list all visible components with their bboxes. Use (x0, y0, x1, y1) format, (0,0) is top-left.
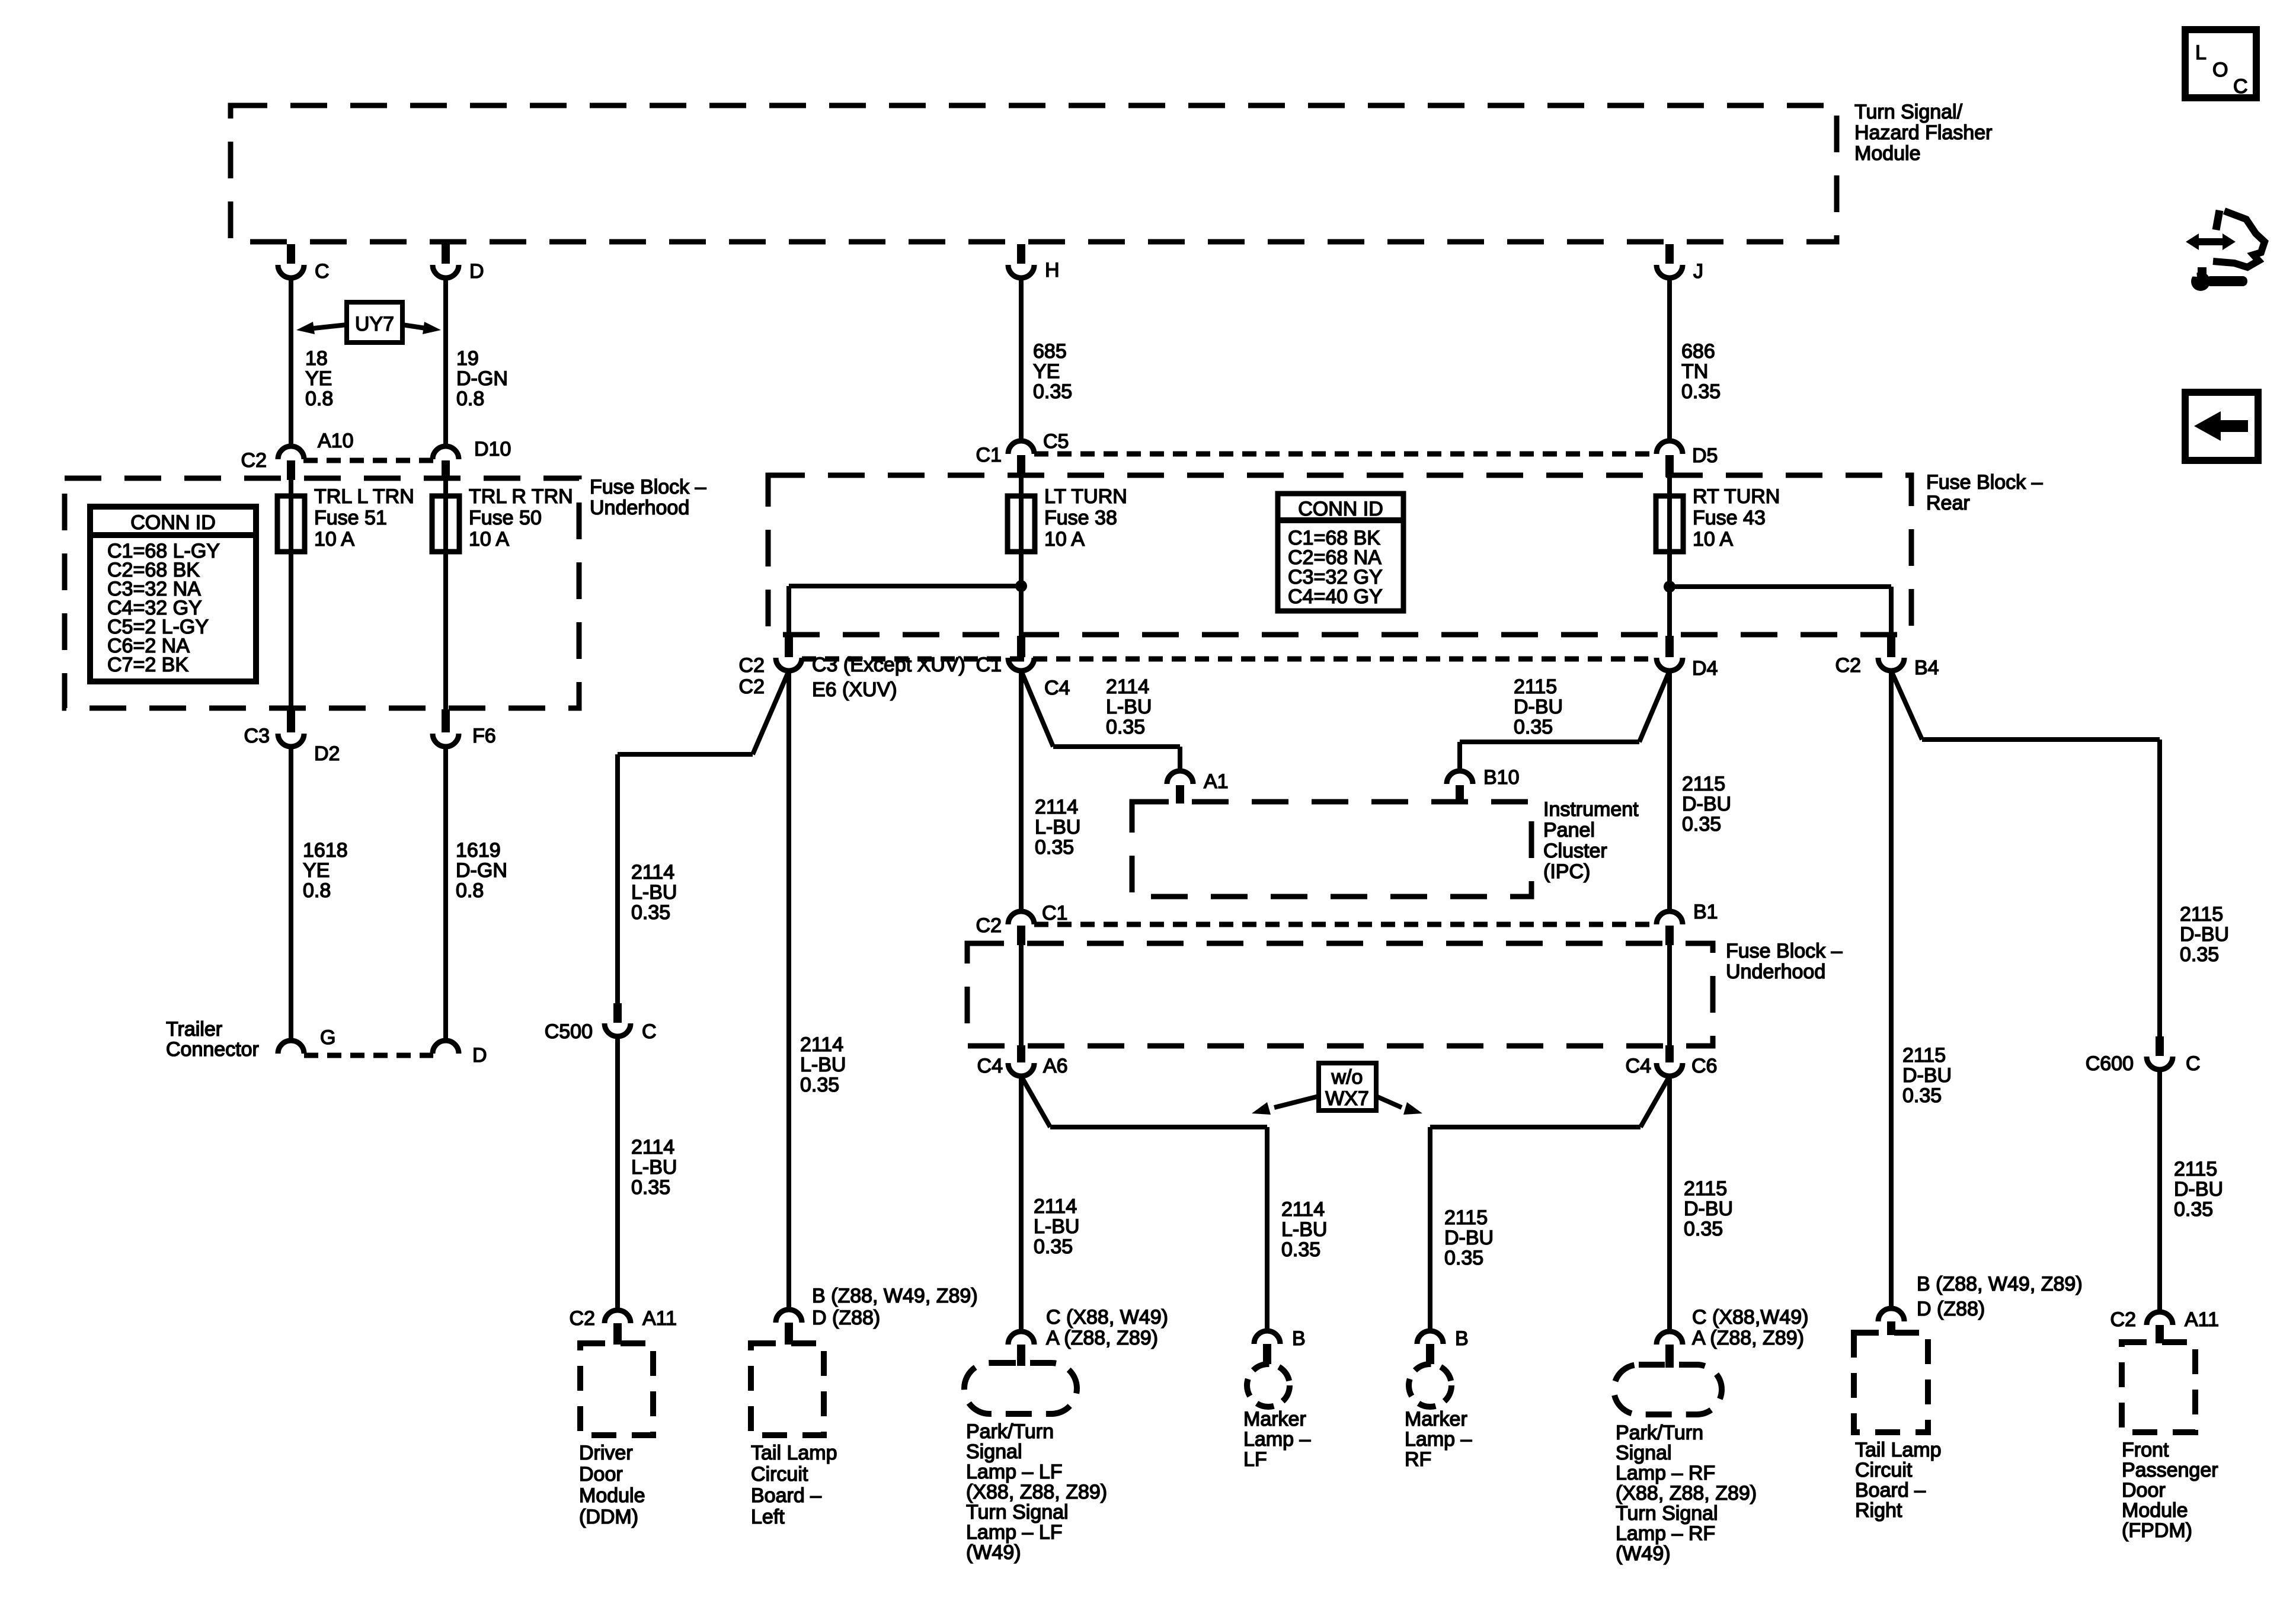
wire branch LT TURN junction to left (789, 584, 1021, 588)
svg-text:Panel: Panel (1543, 819, 1595, 841)
connector C2/B4 cup (1878, 658, 1904, 671)
label Tail Lamp Circuit Board - Left (751, 1442, 837, 1528)
svg-text:Right: Right (1855, 1499, 1902, 1522)
connector D10 cup (433, 446, 459, 459)
svg-text:CONN ID: CONN ID (1298, 498, 1383, 520)
svg-text:10 A: 10 A (469, 528, 509, 550)
connector C1/C4 stub (1017, 636, 1025, 657)
connector stub (park/turn RF) (1665, 1345, 1674, 1368)
svg-text:D2: D2 (314, 742, 340, 765)
svg-text:2114: 2114 (631, 861, 674, 884)
svg-text:C600: C600 (2086, 1052, 2134, 1075)
svg-text:RF: RF (1405, 1448, 1431, 1471)
svg-text:D (Z88): D (Z88) (1917, 1298, 1985, 1320)
svg-text:Underhood: Underhood (590, 497, 689, 519)
svg-text:C2: C2 (570, 1307, 595, 1330)
UY7 arrow right (402, 322, 441, 334)
label B/D pins (tail lamp right) (1917, 1273, 2083, 1320)
svg-text:C7=2 BK: C7=2 BK (107, 654, 188, 676)
svg-text:0.8: 0.8 (456, 388, 484, 410)
svg-text:A11: A11 (642, 1307, 677, 1330)
connector C600 cup (2147, 1057, 2173, 1070)
connector C4/A6 cup (1008, 1063, 1034, 1076)
svg-text:C2: C2 (739, 654, 765, 677)
svg-text:2114: 2114 (631, 1136, 674, 1158)
svg-text:TRL L TRN: TRL L TRN (314, 485, 414, 508)
label wire 2115 D-BU 0.35 (B10 branch) (1514, 676, 1563, 738)
label Park/Turn Signal Lamp - RF (1616, 1422, 1757, 1565)
svg-text:L-BU: L-BU (800, 1054, 846, 1076)
icon LOC box (2185, 30, 2256, 98)
svg-text:(IPC): (IPC) (1543, 860, 1590, 883)
svg-text:A6: A6 (1043, 1055, 1068, 1077)
svg-text:0.35: 0.35 (1033, 380, 1072, 403)
component outline Marker Lamp - RF (1409, 1364, 1451, 1407)
svg-text:D-BU: D-BU (1444, 1227, 1494, 1249)
svg-text:Module: Module (579, 1484, 645, 1507)
wire 18 YE (C to A10) (289, 278, 293, 446)
connector stub (marker LF) (1263, 1344, 1271, 1364)
svg-text:A11: A11 (2185, 1308, 2219, 1331)
junction dot (RT TURN to B4 branch) (1664, 581, 1675, 593)
label wire 2114 L-BU 0.35 (A6 down) (1034, 1195, 1079, 1258)
svg-text:Lamp –: Lamp – (1405, 1428, 1472, 1451)
svg-text:0.35: 0.35 (1281, 1238, 1320, 1261)
svg-text:(FPDM): (FPDM) (2122, 1519, 2192, 1542)
connector A11 stub (FPDM) (2156, 1325, 2164, 1343)
label wire 19 D-GN 0.8 (456, 347, 508, 410)
svg-text:Circuit: Circuit (751, 1463, 808, 1486)
svg-text:0.35: 0.35 (631, 901, 670, 924)
wire 2115 D-BU (marker RF down) (1428, 1127, 1432, 1331)
svg-text:TN: TN (1681, 360, 1708, 383)
svg-text:D-BU: D-BU (1682, 793, 1731, 815)
label wire 2114 L-BU 0.35 (A1 branch) (1106, 676, 1152, 738)
connector D5 cup (1657, 441, 1683, 454)
label B/D pins (tail lamp left) (812, 1285, 978, 1329)
connector C2/B4 stub (1887, 636, 1895, 657)
fuse LT TURN Fuse 38 10A (1008, 485, 1127, 552)
wire 2114 L-BU (A6 down) (1019, 1076, 1024, 1331)
connector stub (tail lamp left) (785, 1323, 793, 1345)
svg-text:C4: C4 (1626, 1055, 1651, 1077)
svg-text:Board –: Board – (1855, 1479, 1926, 1502)
connector line C5-D5 (1034, 452, 1657, 457)
svg-text:w/o: w/o (1331, 1066, 1363, 1089)
wire fuse50 feed (443, 480, 448, 709)
connector C3 cup (278, 734, 304, 747)
svg-text:Tail Lamp: Tail Lamp (1855, 1439, 1942, 1461)
connector stub (tail lamp right) (1887, 1321, 1895, 1335)
svg-text:C: C (642, 1020, 657, 1043)
svg-text:2115: 2115 (1684, 1177, 1727, 1200)
wire 2114 L-BU down to C500 (615, 754, 620, 1003)
wire 685 YE (H to C5) (1019, 278, 1024, 441)
svg-text:0.35: 0.35 (1106, 716, 1145, 738)
svg-text:C (X88,W49): C (X88,W49) (1692, 1306, 1809, 1329)
wire fuse51 feed (289, 480, 293, 709)
wire 1618 YE (C3 to G) (289, 747, 293, 1041)
svg-text:Park/Turn: Park/Turn (966, 1420, 1054, 1443)
svg-text:G: G (320, 1026, 335, 1049)
svg-text:C5: C5 (1043, 430, 1069, 453)
connector pin J (1657, 265, 1683, 278)
wire 2115 D-BU (C6 diag to marker) (1641, 1076, 1670, 1127)
svg-text:2114: 2114 (1035, 796, 1078, 818)
wire 2115 D-BU (D4 diagonal) (1639, 671, 1670, 742)
wire 2115 D-BU (D4 to B1) (1667, 671, 1672, 911)
svg-text:Lamp – LF: Lamp – LF (966, 1521, 1063, 1544)
module box: Turn Signal/Hazard Flasher Module (231, 105, 1837, 242)
connector C2/A10 cup (278, 446, 304, 459)
wire 2115 D-BU (down to B10) (1457, 742, 1462, 771)
pin stub J (module) (1665, 244, 1674, 264)
svg-text:D5: D5 (1692, 444, 1718, 467)
svg-text:C4=40 GY: C4=40 GY (1288, 585, 1383, 608)
svg-text:2114: 2114 (800, 1033, 843, 1056)
wire 2115 diag to C600 branch (1891, 671, 1922, 740)
svg-text:19: 19 (456, 347, 479, 370)
svg-text:Front: Front (2122, 1439, 2169, 1461)
svg-text:Lamp – LF: Lamp – LF (966, 1461, 1063, 1483)
svg-text:Circuit: Circuit (1855, 1459, 1913, 1481)
svg-text:C4: C4 (1044, 677, 1070, 699)
svg-text:Hazard Flasher: Hazard Flasher (1854, 121, 1992, 144)
connector C1/C5 cup (1008, 441, 1034, 454)
svg-text:0.35: 0.35 (1682, 813, 1721, 836)
svg-text:C: C (2186, 1052, 2201, 1075)
wire 2114 L-BU (C500 to DDM) (615, 1036, 620, 1310)
svg-text:UY7: UY7 (355, 313, 394, 335)
wire fuse43 feed (1667, 477, 1672, 636)
w/o WX7 arrow right (1376, 1096, 1422, 1115)
svg-text:A1: A1 (1204, 770, 1229, 793)
svg-text:D-BU: D-BU (2174, 1178, 2223, 1201)
connector C3 stub (287, 709, 295, 732)
svg-text:Lamp – RF: Lamp – RF (1616, 1522, 1715, 1545)
svg-text:2115: 2115 (2174, 1158, 2217, 1180)
svg-text:O: O (2212, 59, 2228, 81)
svg-text:D-BU: D-BU (2180, 923, 2229, 946)
wire 2114 L-BU (C4 to C1 mid) (1019, 671, 1024, 911)
svg-text:Instrument: Instrument (1543, 798, 1639, 821)
component outline Park/Turn Signal Lamp - LF (964, 1363, 1077, 1414)
label wire 685 YE 0.35 (1033, 340, 1072, 403)
svg-text:C4: C4 (977, 1055, 1003, 1077)
module box: Fuse Block - Underhood (center) (967, 943, 1713, 1046)
svg-text:C2: C2 (2110, 1308, 2136, 1331)
connector B1 cup (1657, 911, 1683, 924)
svg-text:Signal: Signal (1616, 1442, 1672, 1464)
svg-text:D-BU: D-BU (1684, 1198, 1733, 1220)
svg-text:Driver: Driver (579, 1442, 633, 1464)
svg-text:D-BU: D-BU (1902, 1064, 1952, 1087)
label Front Passenger Door Module (FPDM) (2122, 1439, 2218, 1542)
wire 19 D-GN (D to D10) (443, 278, 448, 446)
label wire 2115 D-BU 0.35 (tail right) (1902, 1044, 1952, 1107)
svg-text:C500: C500 (545, 1020, 593, 1043)
svg-text:A10: A10 (318, 430, 354, 452)
svg-text:Module: Module (2122, 1499, 2188, 1522)
svg-text:2115: 2115 (1902, 1044, 1946, 1067)
svg-text:Fuse 50: Fuse 50 (469, 507, 542, 529)
label wire 1619 D-GN 0.8 (456, 839, 507, 902)
connector C4/A6 stub (1017, 1045, 1025, 1062)
svg-text:(DDM): (DDM) (579, 1506, 638, 1528)
svg-text:Fuse 38: Fuse 38 (1044, 507, 1117, 529)
wire 2115 D-BU down to C600 (2157, 740, 2162, 1036)
svg-text:0.35: 0.35 (1902, 1084, 1942, 1107)
wire branch to C2 connector (786, 586, 791, 636)
svg-text:L: L (2195, 41, 2207, 64)
label Fuse Block - Underhood (left) (590, 476, 706, 519)
svg-text:10 A: 10 A (1044, 528, 1085, 550)
label wire 1618 YE 0.8 (303, 839, 348, 902)
label Driver Door Module (DDM) (579, 1442, 645, 1528)
icon jump-to with wrench (2186, 210, 2265, 291)
wire 686 TN (J to D5) (1667, 278, 1672, 441)
connector D4 stub (1665, 636, 1674, 657)
connector C600 stub (2156, 1036, 2164, 1056)
wire 2115 D-BU (C6 down) (1667, 1076, 1672, 1331)
connector C500 stub (613, 1003, 622, 1023)
component box Front Passenger Door Module (2122, 1342, 2195, 1432)
connector line C1-B1 (1034, 922, 1657, 927)
fuse RT TURN Fuse 43 10A (1656, 485, 1780, 552)
label Marker Lamp - RF (1405, 1408, 1472, 1471)
label wire 2114 L-BU 0.35 (IPC drop) (1035, 796, 1080, 859)
UY7 option box (347, 302, 402, 343)
svg-text:L-BU: L-BU (1281, 1218, 1327, 1241)
svg-text:2115: 2115 (1444, 1206, 1488, 1229)
svg-text:Turn Signal: Turn Signal (966, 1501, 1069, 1523)
svg-text:(X88, Z88, Z89): (X88, Z88, Z89) (1616, 1482, 1757, 1505)
module box: Fuse Block - Underhood (left) (65, 478, 579, 708)
component outline Park/Turn Signal Lamp - RF (1614, 1365, 1722, 1414)
svg-text:D10: D10 (474, 438, 511, 460)
wire 2115 D-BU (marker RF horizontal) (1430, 1125, 1641, 1129)
svg-text:Fuse 43: Fuse 43 (1693, 507, 1766, 529)
connector C2/A10 stub (287, 460, 295, 480)
svg-text:C (X88, W49): C (X88, W49) (1046, 1306, 1168, 1329)
svg-text:Left: Left (751, 1506, 785, 1528)
wire 2114 L-BU (marker LF down) (1265, 1127, 1269, 1331)
svg-text:0.35: 0.35 (2174, 1198, 2213, 1221)
connector cup (park/turn LF) (1008, 1331, 1034, 1345)
label wire 2114 L-BU 0.35 (above C500) (631, 861, 677, 924)
UY7 arrow left (296, 322, 347, 334)
label wire 2115 D-BU 0.35 (above C600) (2180, 903, 2229, 966)
svg-text:C2: C2 (739, 676, 765, 698)
svg-text:Lamp – RF: Lamp – RF (1616, 1462, 1715, 1484)
label wire 2115 D-BU 0.35 (B1 drop) (1682, 773, 1731, 836)
svg-text:Module: Module (1854, 142, 1921, 165)
svg-text:1619: 1619 (456, 839, 501, 862)
svg-text:C1: C1 (976, 444, 1002, 466)
module box: Instrument Panel Cluster (IPC) (1132, 802, 1531, 897)
svg-text:A (Z88, Z89): A (Z88, Z89) (1692, 1327, 1804, 1349)
svg-text:L-BU: L-BU (631, 1156, 677, 1179)
svg-text:B (Z88, W49, Z89): B (Z88, W49, Z89) (812, 1285, 978, 1307)
label C/A pins (park/turn LF) (1046, 1306, 1168, 1349)
connector A11 stub (DDM) (613, 1323, 622, 1345)
wire fuse38 feed (1019, 477, 1024, 636)
svg-text:Fuse 51: Fuse 51 (314, 507, 387, 529)
label C3 (Except XUV) / E6 (XUV) (812, 654, 965, 701)
junction dot (LT TURN to C3 branch) (1015, 580, 1027, 592)
connector cup (marker RF) (1417, 1331, 1443, 1344)
wire 2115 horizontal to C600 (1922, 737, 2160, 742)
wire 2114 L-BU (down to A1) (1178, 747, 1182, 771)
component box Driver Door Module (580, 1343, 653, 1435)
wire 2114 L-BU (A6 diag to marker) (1021, 1076, 1050, 1127)
connector line A10-D10 (303, 458, 433, 463)
connector A1 stub (1176, 785, 1184, 804)
connector A11 cup (FPDM) (2147, 1312, 2173, 1325)
svg-text:2114: 2114 (1106, 676, 1149, 698)
label Tail Lamp Circuit Board - Right (1855, 1439, 1942, 1522)
wire 2115 D-BU (B4 down to tail lamp) (1889, 671, 1894, 1308)
svg-text:0.35: 0.35 (1444, 1247, 1483, 1269)
svg-text:C3: C3 (244, 725, 270, 747)
connector pin H (1008, 265, 1034, 278)
svg-text:Turn Signal/: Turn Signal/ (1854, 101, 1963, 123)
svg-text:2114: 2114 (1034, 1195, 1077, 1218)
svg-text:Door: Door (579, 1463, 623, 1486)
svg-text:Lamp –: Lamp – (1243, 1428, 1310, 1451)
label Fuse Block - Underhood (center) (1726, 940, 1843, 983)
svg-text:LF: LF (1243, 1448, 1267, 1471)
svg-text:B10: B10 (1483, 766, 1520, 789)
module box: Fuse Block - Rear (768, 475, 1911, 635)
svg-text:2115: 2115 (2180, 903, 2223, 926)
connector D5 stub (1665, 455, 1674, 477)
svg-text:C2: C2 (1835, 654, 1861, 677)
wire 2114 L-BU (marker LF horizontal) (1050, 1125, 1267, 1129)
connector line C2-D4 (802, 657, 1657, 662)
connector F6 stub (442, 709, 450, 732)
connector A1 cup (1167, 771, 1193, 784)
connector C2/C1 cup (mid) (1008, 911, 1034, 924)
svg-text:D-GN: D-GN (456, 859, 507, 882)
label Fuse Block - Rear (1926, 471, 2043, 514)
svg-text:2115: 2115 (1514, 676, 1557, 698)
connector C1/C4 cup (1008, 658, 1034, 671)
svg-text:C: C (315, 260, 330, 283)
svg-text:B: B (1455, 1327, 1469, 1350)
svg-text:10 A: 10 A (1693, 528, 1733, 550)
svg-text:10 A: 10 A (314, 528, 354, 550)
connector G cup (278, 1041, 304, 1054)
connector stub (park/turn LF) (1017, 1345, 1025, 1366)
svg-text:2115: 2115 (1682, 773, 1725, 795)
svg-text:Signal: Signal (966, 1441, 1022, 1463)
connector pin C (278, 265, 304, 278)
svg-text:Marker: Marker (1243, 1408, 1306, 1430)
label wire 2115 D-BU 0.35 (C6 down) (1684, 1177, 1733, 1240)
label wire 18 YE 0.8 (305, 347, 333, 410)
svg-text:Cluster: Cluster (1543, 840, 1607, 862)
svg-text:0.35: 0.35 (1034, 1235, 1073, 1258)
svg-text:685: 685 (1033, 340, 1067, 363)
wire through underhood block (right) (1667, 945, 1672, 1045)
svg-text:B1: B1 (1693, 901, 1718, 923)
connector D10 stub (442, 460, 450, 480)
label C2 / C2 (739, 654, 765, 698)
svg-text:(X88, Z88, Z89): (X88, Z88, Z89) (966, 1481, 1107, 1503)
wire 2114 diag to C500 branch (753, 671, 789, 754)
svg-text:J: J (1693, 260, 1703, 283)
svg-text:L-BU: L-BU (1034, 1215, 1079, 1238)
label wire 2115 D-BU 0.35 (marker RF) (1444, 1206, 1494, 1269)
svg-text:0.35: 0.35 (800, 1074, 839, 1096)
component outline Marker Lamp - LF (1247, 1364, 1290, 1407)
svg-text:Rear: Rear (1926, 492, 1970, 514)
svg-text:C2: C2 (976, 914, 1002, 937)
svg-text:B4: B4 (1914, 657, 1939, 679)
trailer connector line G-D (304, 1053, 433, 1058)
svg-text:18: 18 (305, 347, 328, 370)
connector C500 cup (605, 1023, 631, 1036)
svg-text:(W49): (W49) (1616, 1542, 1671, 1565)
svg-text:TRL R TRN: TRL R TRN (469, 485, 573, 508)
label wire 2114 L-BU 0.35 (marker LF) (1281, 1198, 1327, 1261)
connector B10 cup (1447, 771, 1473, 784)
svg-text:Park/Turn: Park/Turn (1616, 1422, 1703, 1444)
svg-text:Fuse Block –: Fuse Block – (1726, 940, 1843, 962)
svg-text:0.35: 0.35 (2180, 943, 2219, 966)
CONN ID table (center) (1278, 494, 1403, 611)
label Trailer Connector (166, 1018, 259, 1061)
wire 2114 L-BU (C4 diagonal) (1021, 671, 1053, 747)
label wire 2114 L-BU 0.35 (below C500) (631, 1136, 677, 1199)
svg-text:Passenger: Passenger (2122, 1459, 2218, 1481)
connector cup (tail lamp right) (1878, 1308, 1904, 1321)
svg-text:C2: C2 (241, 449, 267, 472)
svg-text:YE: YE (305, 367, 332, 390)
connector C4/C6 cup (1657, 1063, 1683, 1076)
svg-text:H: H (1045, 259, 1060, 281)
svg-text:2114: 2114 (1281, 1198, 1325, 1221)
svg-text:L-BU: L-BU (631, 881, 677, 904)
svg-text:Underhood: Underhood (1726, 961, 1825, 983)
svg-text:D-GN: D-GN (456, 367, 508, 390)
label wire 686 TN 0.35 (1681, 340, 1721, 403)
connector C1/C5 stub (1017, 455, 1025, 477)
connector pin D (433, 265, 459, 278)
connector C2/C2 cup (776, 658, 802, 671)
svg-text:1618: 1618 (303, 839, 348, 862)
connector cup (park/turn RF) (1657, 1331, 1683, 1345)
svg-text:0.35: 0.35 (1514, 716, 1553, 738)
pin stub C (module) (287, 244, 295, 264)
svg-text:Turn Signal: Turn Signal (1616, 1502, 1718, 1525)
svg-text:Fuse Block –: Fuse Block – (1926, 471, 2043, 494)
svg-text:A (Z88, Z89): A (Z88, Z89) (1046, 1327, 1158, 1349)
svg-text:WX7: WX7 (1325, 1087, 1369, 1110)
svg-text:CONN ID: CONN ID (130, 511, 216, 534)
connector F6 cup (433, 734, 459, 747)
component box Tail Lamp Circuit Board - Right (1854, 1333, 1928, 1432)
svg-text:Trailer: Trailer (166, 1018, 222, 1041)
pin stub D (module) (442, 244, 450, 264)
connector D4 cup (1657, 658, 1683, 671)
w/o WX7 option box (1319, 1063, 1376, 1110)
svg-text:B (Z88, W49, Z89): B (Z88, W49, Z89) (1917, 1273, 2083, 1295)
svg-text:(W49): (W49) (966, 1541, 1021, 1564)
connector A11 cup (DDM) (605, 1310, 631, 1323)
connector stub (marker RF) (1426, 1344, 1434, 1364)
